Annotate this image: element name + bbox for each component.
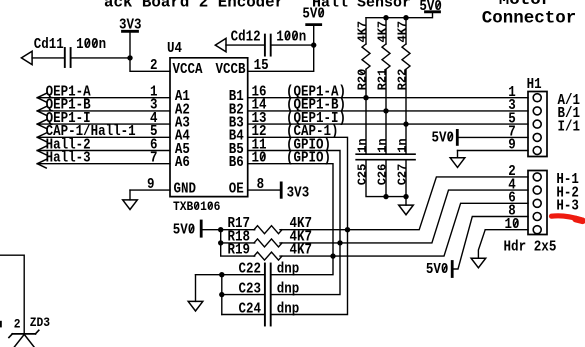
- svg-text:dnp: dnp: [277, 282, 300, 298]
- svg-text:R21: R21: [375, 69, 389, 91]
- svg-text:3V3: 3V3: [287, 186, 310, 202]
- svg-text:ack Board 2 Encoder: ack Board 2 Encoder: [104, 0, 284, 11]
- svg-text:4K7: 4K7: [355, 21, 369, 43]
- svg-text:ZD3: ZD3: [30, 315, 50, 330]
- svg-text:4K7: 4K7: [395, 21, 409, 43]
- svg-text:9: 9: [508, 138, 516, 154]
- svg-text:Connector: Connector: [482, 9, 577, 29]
- svg-text:7: 7: [150, 151, 158, 167]
- svg-text:H-3: H-3: [556, 199, 579, 215]
- svg-text:B6: B6: [229, 155, 244, 171]
- svg-text:Hall Sensor: Hall Sensor: [312, 0, 411, 11]
- svg-text:5V0: 5V0: [173, 223, 196, 239]
- svg-text:Hall-3: Hall-3: [46, 151, 91, 167]
- svg-text:GND: GND: [174, 182, 197, 198]
- svg-text:100n: 100n: [76, 37, 106, 53]
- svg-text:5V0: 5V0: [431, 131, 454, 147]
- svg-text:1n: 1n: [355, 138, 369, 152]
- svg-text:8: 8: [257, 177, 265, 193]
- svg-text:C24: C24: [238, 302, 261, 318]
- svg-text:R22: R22: [395, 69, 409, 91]
- svg-text:R20: R20: [355, 69, 369, 91]
- svg-text:I/1: I/1: [558, 120, 581, 136]
- svg-text:(GPIO): (GPIO): [286, 151, 331, 167]
- svg-text:U4: U4: [167, 41, 182, 57]
- svg-text:2: 2: [150, 58, 158, 74]
- svg-text:15: 15: [254, 58, 269, 74]
- svg-text:100n: 100n: [276, 30, 306, 46]
- svg-text:R19: R19: [228, 243, 251, 259]
- svg-text:4K7: 4K7: [375, 21, 389, 43]
- svg-text:5V0: 5V0: [419, 0, 442, 15]
- svg-text:C27: C27: [395, 164, 409, 186]
- svg-text:VCCA: VCCA: [173, 62, 204, 78]
- svg-text:Cd11: Cd11: [34, 37, 64, 53]
- svg-text:C23: C23: [238, 282, 261, 298]
- svg-text:4K7: 4K7: [290, 243, 313, 259]
- svg-text:Cd12: Cd12: [231, 30, 261, 46]
- svg-text:H1: H1: [527, 77, 542, 93]
- svg-text:1n: 1n: [395, 138, 409, 152]
- svg-text:C26: C26: [375, 164, 389, 186]
- svg-text:5V0: 5V0: [426, 262, 449, 278]
- svg-text:dnp: dnp: [277, 302, 300, 318]
- svg-text:OE: OE: [229, 182, 244, 198]
- svg-text:VCCB: VCCB: [215, 62, 245, 78]
- svg-text:9: 9: [147, 177, 155, 193]
- svg-text:Hdr 2x5: Hdr 2x5: [504, 240, 557, 256]
- svg-text:dnp: dnp: [277, 262, 300, 278]
- svg-text:2: 2: [14, 317, 21, 332]
- svg-text:1n: 1n: [375, 138, 389, 152]
- svg-text:C22: C22: [238, 262, 261, 278]
- svg-text:3V3: 3V3: [119, 18, 142, 34]
- svg-text:A6: A6: [175, 155, 190, 171]
- svg-text:C25: C25: [355, 164, 369, 186]
